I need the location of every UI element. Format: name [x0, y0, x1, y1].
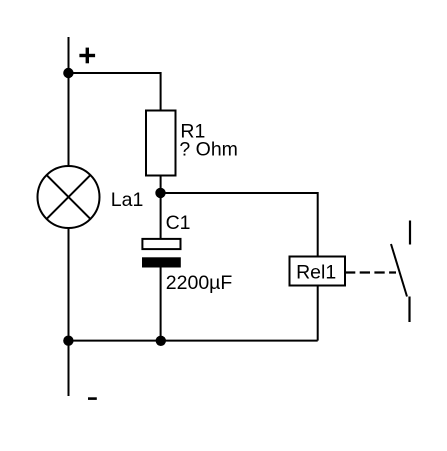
wire left rail top segment [68, 37, 70, 167]
svg-text:La1: La1 [111, 189, 144, 211]
wire relay bottom to bus [317, 286, 319, 341]
svg-text:? Ohm: ? Ohm [179, 138, 238, 160]
svg-text:C1: C1 [166, 212, 191, 234]
node junction mid [155, 188, 165, 198]
svg-text:Rel1: Rel1 [296, 261, 336, 283]
wire left rail lamp to bottom [68, 228, 70, 396]
switch S1 [391, 221, 410, 323]
minus terminal label [88, 397, 97, 400]
relay Rel1 [290, 257, 346, 286]
resistor R1 [146, 111, 176, 176]
dashed link relay to switch [345, 271, 396, 273]
node junction bottom-left [63, 336, 73, 346]
svg-text:2200µF: 2200µF [166, 272, 233, 294]
wire capacitor bottom to bus [160, 268, 162, 341]
wire top horizontal to resistor branch [69, 73, 161, 111]
lamp La1 [38, 166, 100, 228]
capacitor C1 [142, 239, 181, 268]
node junction top-left [63, 68, 73, 78]
wire resistor bottom to capacitor [160, 176, 162, 240]
node junction bottom-mid [156, 336, 166, 346]
plus terminal label [79, 48, 95, 64]
wire middle horizontal to relay branch [161, 193, 318, 257]
wire bottom bus [69, 340, 318, 342]
